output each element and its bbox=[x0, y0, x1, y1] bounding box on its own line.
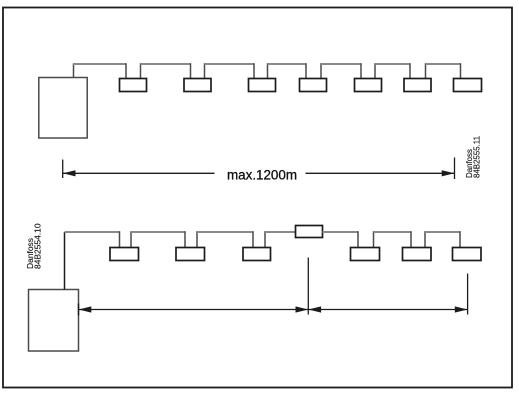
dimension line top right part bbox=[306, 172, 455, 174]
device B4 bbox=[300, 79, 327, 92]
wire bottom bus segment 5 bbox=[323, 231, 359, 233]
wire bottom bus segment 1 bbox=[65, 231, 120, 233]
wire drop B5 right bbox=[374, 63, 376, 78]
wire top bus segment 2 bbox=[141, 63, 191, 65]
wire drop B2 left bbox=[190, 63, 192, 78]
wire drop B3 left bbox=[253, 63, 255, 78]
wire bottom bus segment 4 bbox=[265, 231, 296, 233]
wire M1 riser bbox=[73, 64, 75, 78]
wire drop B6 left bbox=[409, 63, 411, 78]
arrowhead bottom at M2 bbox=[79, 306, 92, 312]
wire top bus segment 7 bbox=[426, 63, 461, 65]
wire M2 riser bbox=[64, 232, 66, 290]
device B5 bbox=[355, 79, 382, 92]
wire drop C1 left bbox=[119, 231, 121, 247]
label Danfoss 84B2555.11 bbox=[465, 136, 481, 178]
wire drop C3 left bbox=[252, 231, 254, 247]
wire drop C4 right bbox=[373, 231, 375, 247]
device B1 bbox=[120, 79, 147, 92]
repeater R1 (inline unit) bbox=[296, 226, 323, 238]
wire bottom bus segment 6 bbox=[374, 231, 412, 233]
wire drop B1 right bbox=[140, 63, 142, 78]
wire drop C2 right bbox=[196, 231, 198, 247]
wire drop C5 right bbox=[424, 231, 426, 247]
wire drop B7 bbox=[460, 63, 462, 78]
dimension extension tick left (top) bbox=[62, 160, 64, 179]
wire bottom bus segment 2 bbox=[131, 231, 185, 233]
svg-text:max.1200m: max.1200m bbox=[227, 167, 297, 182]
device B7 bbox=[454, 79, 482, 92]
wire top bus segment 5 bbox=[321, 63, 361, 65]
dimension line top left part bbox=[63, 172, 215, 174]
wire top bus segment 6 bbox=[375, 63, 410, 65]
device C2 bbox=[176, 248, 205, 261]
wire top bus segment 1 bbox=[73, 63, 126, 65]
arrowhead top right bbox=[442, 170, 455, 176]
wire drop C6 bbox=[459, 231, 461, 247]
device B2 bbox=[184, 79, 211, 92]
wire drop C4 left bbox=[357, 231, 359, 247]
dimension tick centre (bottom) bbox=[307, 258, 309, 315]
label Danfoss 84B2554.10 bbox=[25, 223, 42, 269]
wire drop B4 right bbox=[320, 63, 322, 78]
wire drop B1 left bbox=[125, 63, 127, 78]
wire top bus segment 3 bbox=[205, 63, 255, 65]
wire bottom bus segment 7 bbox=[425, 231, 460, 233]
device C1 bbox=[110, 248, 139, 261]
wire drop B3 right bbox=[267, 63, 269, 78]
dimension tick at M2 edge bbox=[78, 304, 80, 316]
wire drop B6 right bbox=[425, 63, 427, 78]
wire drop B4 left bbox=[305, 63, 307, 78]
dimension line bottom span 1 bbox=[79, 309, 309, 311]
dimension extension tick right (top) bbox=[454, 158, 456, 180]
wire drop C3 right bbox=[264, 231, 266, 247]
wire drop C5 left bbox=[410, 231, 412, 247]
dimension line bottom span 2 bbox=[308, 309, 467, 311]
svg-text:84B2554.10: 84B2554.10 bbox=[32, 223, 42, 269]
wire bottom bus segment 3 bbox=[197, 231, 253, 233]
wire top bus segment 4 bbox=[268, 63, 307, 65]
dimension tick right (bottom) bbox=[467, 274, 469, 315]
device C4 bbox=[351, 248, 380, 261]
arrowhead bottom right bbox=[455, 306, 468, 312]
master unit M2 (bottom controller) bbox=[29, 290, 79, 352]
device B6 bbox=[404, 79, 431, 92]
device C5 bbox=[403, 248, 432, 261]
svg-text:84B2555.11: 84B2555.11 bbox=[472, 136, 481, 178]
arrowhead bottom centre left bbox=[296, 306, 309, 312]
wire drop C2 left bbox=[184, 231, 186, 247]
device C3 bbox=[243, 248, 271, 261]
device B3 bbox=[249, 79, 276, 92]
device C6 bbox=[453, 248, 482, 261]
wire drop B5 left bbox=[360, 63, 362, 78]
wire drop B2 right bbox=[204, 63, 206, 78]
wire drop C1 right bbox=[130, 231, 132, 247]
arrowhead top left bbox=[63, 170, 76, 176]
arrowhead bottom centre right bbox=[308, 306, 321, 312]
master unit M1 (top controller) bbox=[39, 78, 87, 139]
